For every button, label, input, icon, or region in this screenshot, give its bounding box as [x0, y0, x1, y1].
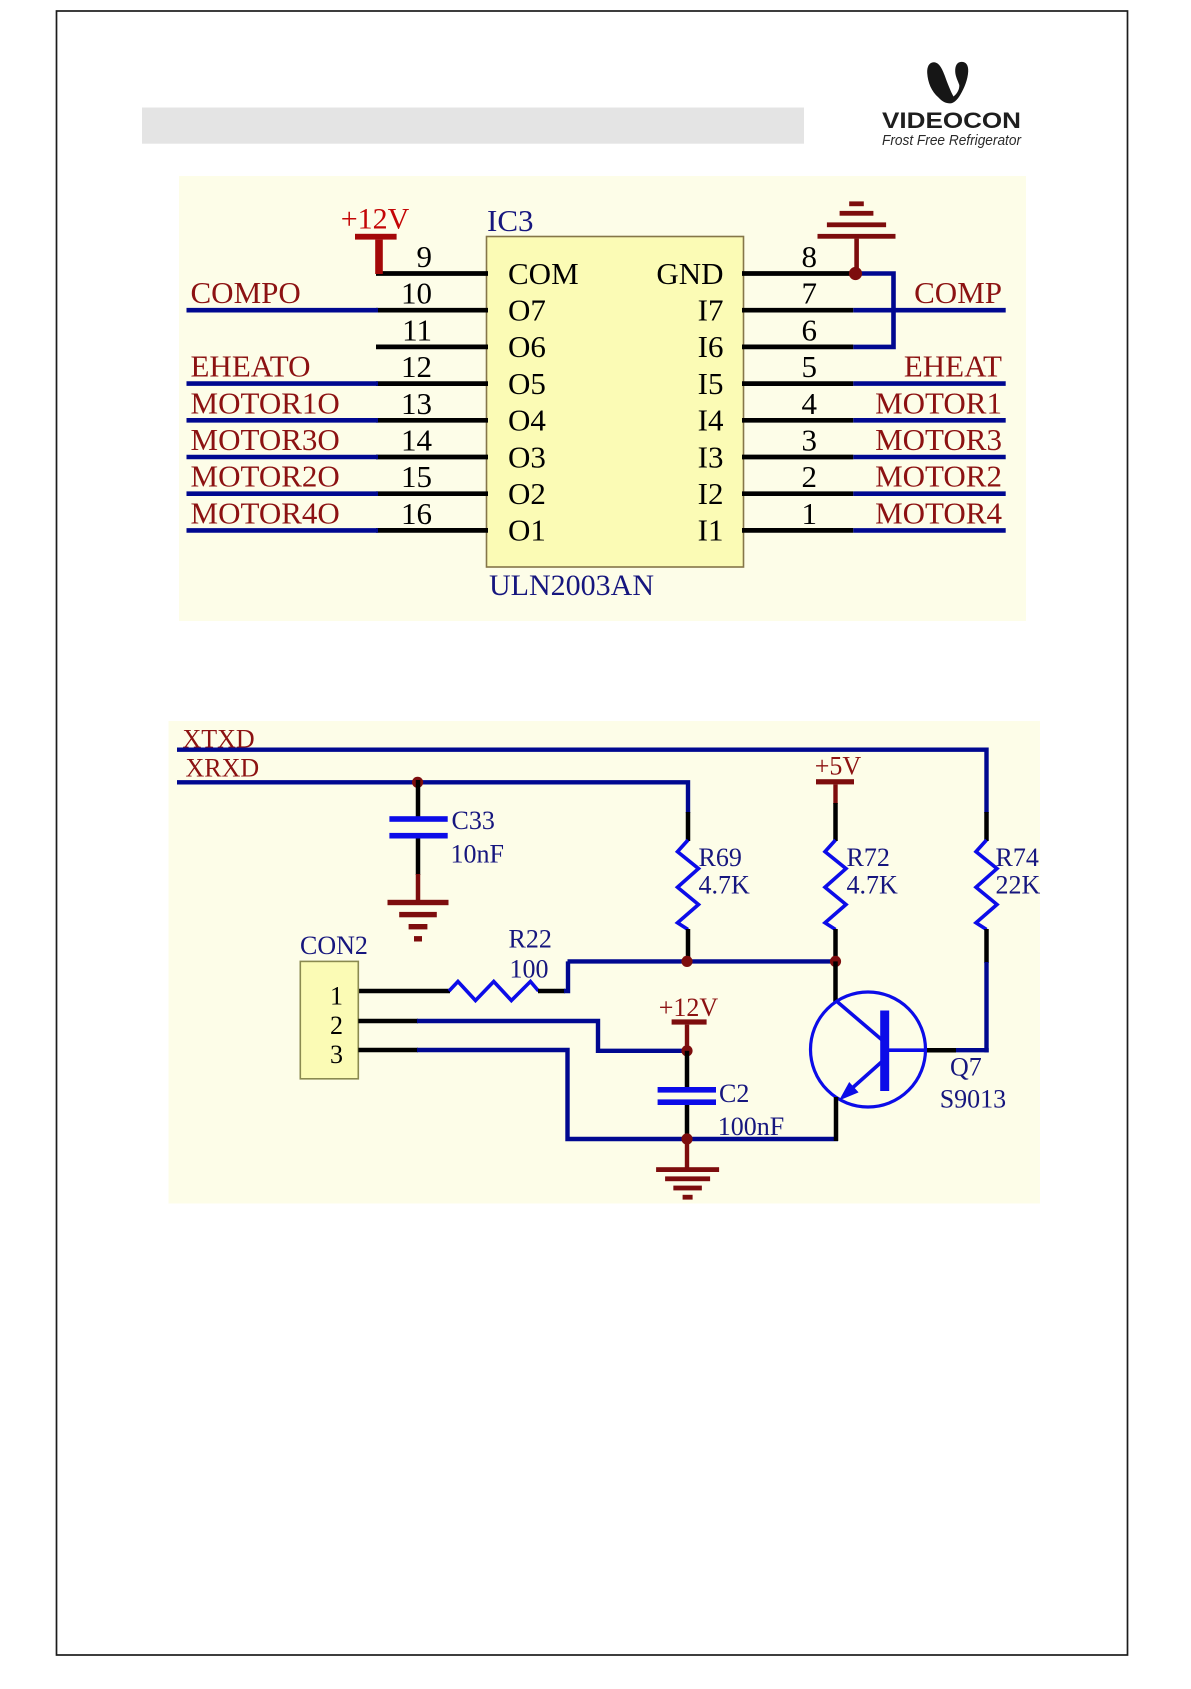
svg-text:2: 2: [802, 459, 818, 494]
svg-text:16: 16: [401, 496, 432, 531]
svg-text:13: 13: [401, 386, 432, 421]
svg-text:GND: GND: [656, 256, 723, 291]
svg-text:O4: O4: [508, 403, 546, 438]
svg-text:S9013: S9013: [940, 1085, 1006, 1114]
svg-text:6: 6: [802, 312, 818, 347]
svg-text:3: 3: [802, 423, 818, 458]
svg-text:5: 5: [802, 349, 818, 384]
svg-text:+12V: +12V: [659, 993, 719, 1022]
svg-text:10: 10: [401, 276, 432, 311]
svg-text:+5V: +5V: [815, 752, 862, 781]
svg-text:MOTOR4: MOTOR4: [875, 495, 1002, 530]
svg-text:8: 8: [802, 239, 818, 274]
svg-text:4: 4: [802, 386, 818, 421]
svg-text:22K: 22K: [996, 871, 1041, 900]
svg-text:MOTOR3O: MOTOR3O: [191, 422, 340, 457]
svg-text:I2: I2: [698, 476, 724, 511]
svg-text:1: 1: [802, 496, 818, 531]
svg-text:Q7: Q7: [950, 1053, 982, 1082]
svg-text:COM: COM: [508, 256, 579, 291]
svg-text:I1: I1: [698, 513, 724, 548]
svg-text:O5: O5: [508, 366, 546, 401]
svg-text:14: 14: [401, 423, 433, 458]
svg-text:MOTOR2: MOTOR2: [875, 459, 1002, 494]
svg-text:MOTOR1O: MOTOR1O: [191, 385, 340, 420]
svg-text:R22: R22: [509, 925, 552, 954]
svg-text:IC3: IC3: [487, 203, 534, 238]
svg-text:COMPO: COMPO: [191, 275, 301, 310]
svg-text:9: 9: [417, 239, 433, 274]
svg-text:3: 3: [330, 1040, 343, 1069]
svg-text:O7: O7: [508, 293, 546, 328]
svg-text:Frost Free Refrigerator: Frost Free Refrigerator: [882, 132, 1022, 149]
svg-text:15: 15: [401, 459, 432, 494]
svg-text:MOTOR1: MOTOR1: [875, 385, 1002, 420]
svg-text:R69: R69: [699, 843, 742, 872]
svg-text:2: 2: [330, 1011, 343, 1040]
svg-text:1: 1: [330, 981, 343, 1010]
svg-text:EHEAT: EHEAT: [904, 349, 1002, 384]
svg-text:CON2: CON2: [300, 931, 368, 960]
svg-text:4.7K: 4.7K: [847, 871, 899, 900]
svg-text:11: 11: [402, 312, 432, 347]
svg-text:O6: O6: [508, 329, 546, 364]
svg-text:100: 100: [510, 955, 549, 984]
svg-text:MOTOR3: MOTOR3: [875, 422, 1002, 457]
svg-text:I4: I4: [698, 403, 724, 438]
svg-text:7: 7: [802, 276, 818, 311]
svg-text:I3: I3: [698, 439, 724, 474]
svg-text:VIDEOCON: VIDEOCON: [882, 108, 1021, 133]
svg-text:12: 12: [401, 349, 432, 384]
svg-text:O1: O1: [508, 513, 546, 548]
svg-text:ULN2003AN: ULN2003AN: [489, 569, 654, 602]
svg-text:4.7K: 4.7K: [699, 871, 751, 900]
svg-text:O3: O3: [508, 439, 546, 474]
svg-text:MOTOR4O: MOTOR4O: [191, 495, 340, 530]
svg-text:EHEATO: EHEATO: [191, 349, 311, 384]
svg-text:R74: R74: [996, 843, 1039, 872]
svg-text:I7: I7: [698, 293, 724, 328]
svg-text:MOTOR2O: MOTOR2O: [191, 459, 340, 494]
svg-text:I5: I5: [698, 366, 724, 401]
svg-text:O2: O2: [508, 476, 546, 511]
svg-text:I6: I6: [698, 329, 724, 364]
svg-text:10nF: 10nF: [451, 840, 504, 869]
svg-text:+12V: +12V: [341, 203, 410, 236]
svg-text:COMP: COMP: [914, 275, 1002, 310]
svg-text:R72: R72: [847, 843, 890, 872]
svg-text:XRXD: XRXD: [186, 754, 260, 783]
svg-text:100nF: 100nF: [718, 1112, 784, 1141]
svg-text:C2: C2: [719, 1079, 749, 1108]
svg-text:C33: C33: [452, 806, 495, 835]
